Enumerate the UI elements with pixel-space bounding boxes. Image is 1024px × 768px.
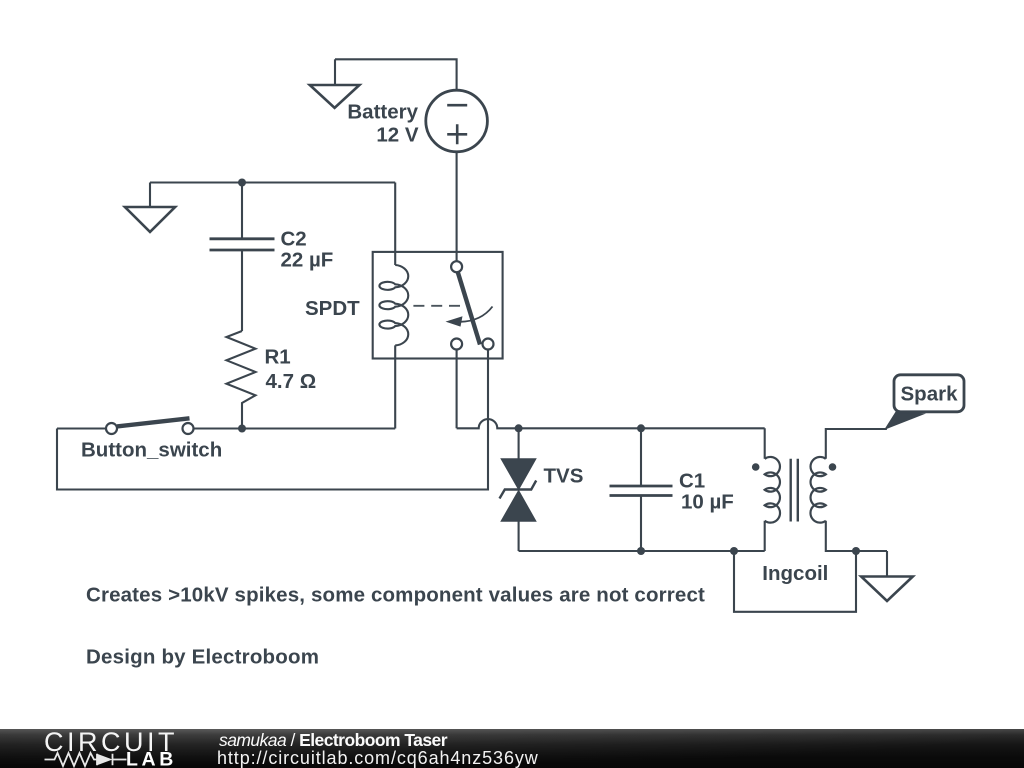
wire battery to relay common bbox=[456, 152, 458, 261]
wire battery top to ground bbox=[335, 59, 457, 90]
node junction R1 bottom bbox=[238, 425, 246, 433]
relay contact terminals bbox=[451, 261, 493, 428]
transformer Ingcoil primary winding bbox=[765, 457, 780, 523]
wire button loop bottom bbox=[57, 350, 488, 490]
relay coil bbox=[379, 265, 408, 345]
switch SW1 Button_switch bbox=[106, 418, 194, 434]
ground top-middle bbox=[310, 59, 360, 108]
relay coil lead bottom bbox=[394, 345, 396, 428]
node junction primary bottom bbox=[730, 547, 738, 555]
transformer phase dot primary bbox=[752, 463, 760, 471]
resistor R1 bbox=[227, 331, 256, 429]
diode TVS D1 bbox=[500, 428, 537, 551]
transformer secondary winding bbox=[810, 457, 825, 523]
wire bottom loop bbox=[734, 551, 856, 612]
battery V1 bbox=[426, 90, 488, 152]
node junction secondary bottom bbox=[852, 547, 860, 555]
relay actuate arrow bbox=[446, 307, 493, 327]
svg-text:LAB: LAB bbox=[126, 749, 177, 768]
relay coil lead top bbox=[394, 183, 396, 266]
node junction C1 bottom bbox=[637, 547, 645, 555]
wire button-switch rail bbox=[57, 427, 395, 429]
logo squiggle bbox=[45, 753, 127, 766]
flag Spark box bbox=[894, 375, 964, 412]
node junction TVS top bbox=[515, 424, 523, 432]
capacitor C2 bbox=[210, 183, 275, 332]
node junction C1 top bbox=[637, 424, 645, 432]
transformer core bbox=[791, 459, 798, 522]
ground top-left bbox=[125, 183, 175, 232]
capacitor C1 bbox=[610, 428, 673, 551]
transformer Ingcoil primary lead bbox=[764, 428, 766, 551]
relay dashed link bbox=[413, 305, 463, 307]
ground bottom-right bbox=[861, 551, 913, 601]
node junction C2 top bbox=[238, 179, 246, 187]
wire bottom rail bbox=[519, 550, 765, 552]
wire secondary top to spark bbox=[826, 429, 887, 459]
flag Spark pointer bbox=[884, 411, 926, 430]
wire secondary bottom bbox=[826, 521, 887, 551]
transformer phase dot secondary bbox=[829, 463, 837, 471]
wire top-left rail bbox=[150, 181, 395, 183]
wire top rail with hop bbox=[457, 419, 765, 428]
relay switch arm bbox=[458, 272, 480, 344]
relay SPDT box bbox=[373, 252, 503, 359]
